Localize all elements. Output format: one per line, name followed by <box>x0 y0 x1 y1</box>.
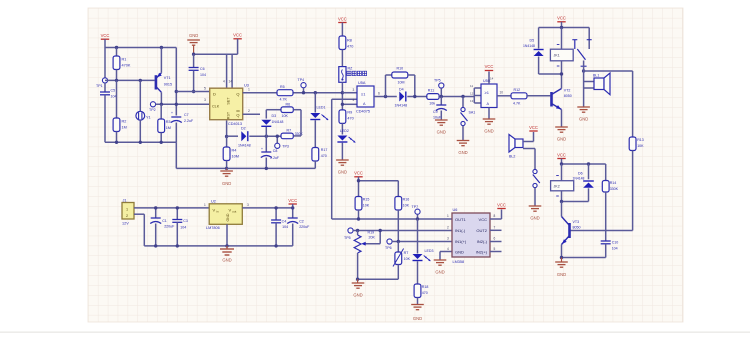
pin number 6 <box>378 92 380 96</box>
power symbol VCC (divider) <box>354 171 363 181</box>
svg-text:C9: C9 <box>433 110 438 114</box>
resistor R1 <box>113 48 131 81</box>
svg-text:1: 1 <box>204 203 206 207</box>
svg-text:14: 14 <box>229 80 233 84</box>
power symbol GND (R18) <box>411 305 424 322</box>
test point TP7 <box>412 205 421 219</box>
or-gate U5B CD4075 <box>470 79 497 108</box>
resistor R11 <box>427 89 475 106</box>
svg-text:BL1: BL1 <box>593 74 599 78</box>
svg-text:10k: 10k <box>429 102 435 106</box>
svg-text:1N4148: 1N4148 <box>238 144 251 148</box>
svg-text:GND: GND <box>189 33 198 38</box>
svg-text:D: D <box>213 91 216 96</box>
svg-text:1N4148: 1N4148 <box>573 177 585 181</box>
node feedback right <box>413 95 416 98</box>
svg-text:LED1: LED1 <box>317 106 326 110</box>
wire U5A output <box>374 96 397 98</box>
power symbol VCC (U5B) <box>485 64 494 84</box>
svg-text:6: 6 <box>494 236 496 240</box>
svg-text:LM358: LM358 <box>453 260 465 264</box>
power symbol VCC (BL2) <box>523 125 538 142</box>
svg-text:CD4013: CD4013 <box>228 122 242 126</box>
wire U2 ground pin <box>225 224 228 247</box>
svg-text:≥1: ≥1 <box>485 90 490 95</box>
wire RST bottom pin <box>226 121 228 137</box>
power symbol VCC (4013) <box>233 33 242 55</box>
svg-text:TP6: TP6 <box>385 246 392 250</box>
wire JK2 rail <box>560 162 606 165</box>
svg-text:BL2: BL2 <box>509 155 515 159</box>
node TP5-C9 <box>440 95 443 98</box>
diode D2 1N4148 <box>227 127 281 148</box>
microphone Y1 <box>136 80 151 142</box>
svg-text:D4: D4 <box>399 88 404 92</box>
capacitor C7 <box>171 111 194 142</box>
wire U6 pin6 stub <box>490 241 502 243</box>
resistor R2 <box>113 80 127 142</box>
wire top rail left <box>105 47 176 49</box>
node C6 bottom on D wire <box>192 90 195 93</box>
wire bottom rail mic stage <box>105 142 227 168</box>
svg-text:JK2: JK2 <box>554 185 560 189</box>
wire VT2 emitter <box>561 110 563 127</box>
svg-text:GND: GND <box>222 181 231 186</box>
svg-text:CD4075: CD4075 <box>356 110 370 114</box>
pin number 1 (U2) <box>204 203 206 207</box>
wire mic node row <box>105 79 155 81</box>
svg-text:10K: 10K <box>403 204 410 208</box>
svg-text:R4: R4 <box>232 149 237 153</box>
svg-text:4: 4 <box>447 247 449 251</box>
svg-text:LED3: LED3 <box>425 249 434 253</box>
test point TP3 <box>275 135 289 149</box>
svg-text:4.7K: 4.7K <box>513 102 521 106</box>
svg-text:TP1: TP1 <box>96 84 103 88</box>
node gate input 1 <box>341 91 344 94</box>
wire supply bottom rail <box>144 245 292 247</box>
svg-text:R14: R14 <box>610 181 617 185</box>
power symbol GND (SA2) <box>529 206 542 221</box>
svg-text:R13: R13 <box>637 138 644 142</box>
pin number 3 <box>204 98 206 102</box>
power symbol GND (U5B) <box>483 108 496 134</box>
wire Q-bar stub <box>243 113 260 115</box>
capacitor C6 <box>189 54 206 91</box>
connector J1 <box>122 199 134 226</box>
svg-text:1M: 1M <box>122 126 127 130</box>
wire collector node <box>539 72 564 75</box>
LED LED1 <box>310 91 328 148</box>
svg-text:VCC: VCC <box>529 125 538 130</box>
svg-text:VCC: VCC <box>479 217 488 222</box>
svg-text:RST: RST <box>227 111 231 119</box>
node TP4 <box>302 91 305 94</box>
svg-text:R1: R1 <box>122 58 127 62</box>
svg-text:C8: C8 <box>273 149 278 153</box>
svg-text:R3: R3 <box>166 120 171 124</box>
svg-text:C3: C3 <box>183 219 188 223</box>
resistor R15 <box>355 197 370 220</box>
svg-text:Q: Q <box>236 113 239 118</box>
node feedback left <box>384 95 387 98</box>
svg-text:5: 5 <box>494 247 496 251</box>
svg-text:VCC: VCC <box>288 198 297 203</box>
resistor R12 <box>511 88 550 106</box>
wire BL1 to R13 <box>584 71 633 137</box>
svg-text:D5: D5 <box>530 39 535 43</box>
power symbol GND (VT3) <box>555 258 568 278</box>
svg-text:C7: C7 <box>184 113 189 117</box>
svg-text:6: 6 <box>378 92 380 96</box>
svg-text:470: 470 <box>422 291 428 295</box>
svg-text:CLK: CLK <box>212 105 220 109</box>
svg-text:≥1: ≥1 <box>361 92 366 97</box>
svg-text:GND: GND <box>338 170 347 175</box>
svg-text:GND: GND <box>435 270 444 275</box>
resistor R3 <box>158 104 171 142</box>
svg-text:VCC: VCC <box>354 171 363 176</box>
svg-text:7: 7 <box>494 225 496 229</box>
svg-text:GND: GND <box>222 258 231 263</box>
svg-text:U6: U6 <box>453 208 458 212</box>
wire VT3 collector <box>561 202 563 217</box>
capacitor C8 <box>261 136 279 168</box>
svg-text:OUT1: OUT1 <box>455 217 466 222</box>
power symbol GND (R4) <box>220 167 233 186</box>
node gate input 3 <box>341 103 344 106</box>
pin number 2 <box>248 109 250 113</box>
capacitor C4 <box>271 206 288 247</box>
svg-text:Q: Q <box>236 91 239 96</box>
wire VT1 emitter to rail <box>160 48 162 73</box>
svg-text:10K: 10K <box>282 114 289 118</box>
svg-text:330K: 330K <box>610 187 619 191</box>
svg-text:out: out <box>232 209 236 213</box>
svg-text:GND: GND <box>458 150 467 155</box>
relay contact JK1 <box>572 28 591 67</box>
power symbol VCC (mic stage) <box>101 33 110 48</box>
wire D-input drop <box>175 48 177 116</box>
wire relay top rail <box>539 27 590 29</box>
or-gate U5A CD4075 <box>353 81 375 114</box>
capacitor C3 <box>172 206 188 247</box>
resistor R17 <box>312 148 327 169</box>
resistor R14 <box>602 164 618 241</box>
test point TP1 <box>96 78 108 92</box>
svg-text:R15: R15 <box>363 198 370 202</box>
svg-text:D3: D3 <box>272 114 277 118</box>
svg-text:3: 3 <box>247 203 249 207</box>
svg-text:2: 2 <box>447 225 449 229</box>
op-amp U3 CD4013 body <box>210 80 249 127</box>
svg-text:8050: 8050 <box>564 94 572 98</box>
svg-text:GND: GND <box>353 293 362 298</box>
wire lower rail 2 <box>227 167 316 169</box>
svg-text:5: 5 <box>204 87 206 91</box>
speaker BL2 <box>509 135 523 159</box>
svg-text:GND: GND <box>579 117 588 122</box>
svg-text:470: 470 <box>347 116 353 120</box>
power symbol GND (C9) <box>435 120 448 135</box>
transistor VT3 8050 <box>562 217 581 245</box>
power symbol GND (LED2) <box>336 160 349 175</box>
power symbol GND (U2) <box>220 246 234 263</box>
wire R6-R7 link <box>300 110 302 136</box>
node rail-VT1 <box>160 46 163 49</box>
svg-text:GND: GND <box>484 129 493 134</box>
svg-text:4: 4 <box>353 98 355 102</box>
test point TP5 (pot) <box>344 228 452 240</box>
svg-text:2: 2 <box>248 109 250 113</box>
svg-text:104: 104 <box>612 247 618 251</box>
LED LED3 <box>413 219 434 284</box>
svg-text:10K: 10K <box>363 204 370 208</box>
svg-text:VT1: VT1 <box>164 76 171 80</box>
resistor R7 <box>281 129 303 139</box>
svg-text:R8: R8 <box>347 39 352 43</box>
svg-text:VCC: VCC <box>233 33 242 38</box>
svg-text:R10: R10 <box>397 67 404 71</box>
node D2-D3-C8 <box>265 135 268 138</box>
svg-text:GND: GND <box>413 316 422 321</box>
node rail junctions <box>115 141 163 144</box>
svg-text:12V: 12V <box>122 222 129 226</box>
svg-text:Y1: Y1 <box>146 116 151 120</box>
wire U5B output <box>497 95 511 97</box>
svg-text:10M: 10M <box>398 81 405 85</box>
svg-text:3: 3 <box>353 88 355 92</box>
svg-text:4.7K: 4.7K <box>280 98 288 102</box>
U6 pin numbers <box>447 214 496 251</box>
svg-text:104: 104 <box>111 95 117 99</box>
switch SA1 <box>461 97 476 141</box>
svg-text:R11: R11 <box>428 89 434 93</box>
wire VT3 emitter <box>560 245 563 260</box>
svg-text:220uF: 220uF <box>299 225 310 229</box>
node R1-R2 <box>115 79 118 82</box>
svg-text:4: 4 <box>223 80 225 84</box>
wire VT2 collector <box>561 74 563 89</box>
svg-text:R6: R6 <box>286 103 291 107</box>
test point TP2 <box>149 102 156 112</box>
pin number 10 <box>500 91 504 95</box>
power symbol VCC (U6) <box>490 203 506 220</box>
pin number 1 <box>248 88 250 92</box>
node D-input <box>175 90 178 93</box>
svg-text:C1: C1 <box>162 219 167 223</box>
test point TP6 <box>385 239 452 250</box>
power symbol GND (top) <box>187 33 200 54</box>
wire contact to speaker <box>582 61 594 107</box>
svg-text:TP5: TP5 <box>344 236 351 240</box>
test point TP5 <box>434 79 444 97</box>
svg-text:TP5: TP5 <box>434 79 441 83</box>
svg-text:IN2(+): IN2(+) <box>476 250 488 255</box>
svg-text:RT: RT <box>404 251 410 255</box>
svg-text:470: 470 <box>347 45 353 49</box>
capacitor C5 <box>100 89 117 143</box>
bottom window edge line <box>0 331 750 333</box>
svg-text:20K: 20K <box>369 236 376 240</box>
svg-text:470K: 470K <box>122 64 131 68</box>
resistor R13 <box>629 137 644 231</box>
svg-text:10M: 10M <box>232 155 239 159</box>
svg-text:TP3: TP3 <box>282 145 289 149</box>
svg-text:IN2(-): IN2(-) <box>477 239 488 244</box>
svg-text:V: V <box>213 207 216 212</box>
svg-text:GND: GND <box>530 216 539 221</box>
pin number 5 <box>204 87 206 91</box>
svg-text:1N4148: 1N4148 <box>523 44 535 48</box>
svg-text:U2: U2 <box>211 200 216 204</box>
power symbol GND (pot) <box>352 279 365 297</box>
svg-text:2.2uF: 2.2uF <box>184 119 194 123</box>
svg-text:11: 11 <box>470 84 473 88</box>
svg-text:R19: R19 <box>368 231 375 235</box>
svg-text:104: 104 <box>282 225 288 229</box>
svg-text:C4: C4 <box>282 220 287 224</box>
wire pot-RT ground link <box>356 278 398 281</box>
svg-text:1N4148: 1N4148 <box>272 120 284 124</box>
resistor R9 <box>339 110 354 135</box>
svg-text:R9: R9 <box>347 110 352 114</box>
relay JK1 coil <box>550 28 573 75</box>
diode D6 1N4148 <box>562 164 594 202</box>
svg-text:LM7806: LM7806 <box>206 226 220 230</box>
svg-text:C6: C6 <box>200 67 205 71</box>
wire U2 output row <box>242 207 292 209</box>
power symbol GND (BL1) <box>577 107 590 122</box>
svg-text:D6: D6 <box>578 172 583 176</box>
wire left column upper <box>104 48 106 78</box>
pin number 3 (U2) <box>247 203 249 207</box>
svg-text:R7: R7 <box>287 129 292 133</box>
diode D5 1N4148 <box>523 28 544 75</box>
svg-text:14: 14 <box>490 77 494 81</box>
resistor R6 <box>266 103 301 119</box>
wire divider rail <box>357 179 399 197</box>
svg-text:U5A: U5A <box>358 81 366 85</box>
wire RZ to gate inputs <box>341 82 343 109</box>
op-amp U6 LM358 body <box>452 208 490 264</box>
svg-text:VCC: VCC <box>101 33 110 38</box>
svg-text:TP4: TP4 <box>298 78 305 82</box>
regulator U2 LM7806 <box>206 200 242 230</box>
svg-text:C2: C2 <box>299 220 304 224</box>
svg-text:1M: 1M <box>166 126 171 130</box>
svg-text:VCC: VCC <box>497 203 506 208</box>
test point TP4 <box>298 78 307 93</box>
power symbol GND (SA1) <box>457 141 470 156</box>
svg-text:OUT2: OUT2 <box>476 228 487 233</box>
svg-text:10: 10 <box>500 91 504 95</box>
svg-text:GND: GND <box>437 130 446 135</box>
svg-text:VCC: VCC <box>557 16 566 21</box>
svg-text:R18: R18 <box>422 285 429 289</box>
LED LED2 <box>337 129 355 160</box>
wire collector node row <box>156 103 211 105</box>
svg-text:10K: 10K <box>404 257 411 261</box>
svg-text:VCC: VCC <box>557 153 566 158</box>
svg-text:V: V <box>229 207 232 212</box>
svg-text:R17: R17 <box>321 148 328 152</box>
svg-text:TP2: TP2 <box>149 108 156 112</box>
node JK2 bottom <box>560 200 563 203</box>
power symbol VCC (relay JK1) <box>557 16 566 28</box>
wire VT1 collector down <box>160 92 162 104</box>
svg-text:R12: R12 <box>514 88 521 92</box>
resistor R18 <box>414 284 428 304</box>
capacitor C2 <box>287 208 310 246</box>
svg-text:220uF: 220uF <box>164 225 175 229</box>
svg-text:C5: C5 <box>111 89 116 93</box>
svg-text:9015: 9015 <box>164 83 172 87</box>
svg-text:8: 8 <box>494 214 496 218</box>
wire J1 pin1 row <box>134 207 209 209</box>
svg-text:1N4148: 1N4148 <box>395 104 408 108</box>
svg-text:8050: 8050 <box>573 225 581 229</box>
power symbol GND (U6 pin4) <box>434 252 452 275</box>
svg-text:C10: C10 <box>612 241 619 245</box>
svg-text:2: 2 <box>126 214 128 218</box>
svg-text:IN1(+): IN1(+) <box>455 239 467 244</box>
wire U6 pin5 stub <box>490 251 502 253</box>
svg-text:D2: D2 <box>241 127 246 131</box>
svg-text:1: 1 <box>447 214 449 218</box>
svg-text:1: 1 <box>126 207 128 211</box>
wire U6 pin7 stub <box>490 229 502 231</box>
wire D input row <box>176 91 210 93</box>
wire gnd-vcc top link <box>194 54 238 89</box>
svg-text:JK1: JK1 <box>554 54 560 58</box>
resistor R4 <box>223 137 239 169</box>
svg-text:VCC: VCC <box>338 17 347 22</box>
svg-text:VT2: VT2 <box>564 89 571 93</box>
svg-text:R5: R5 <box>280 85 285 89</box>
node rail-R1 <box>115 46 118 49</box>
wire comparator feed drop <box>332 99 452 219</box>
node TP6-R16 <box>397 240 400 243</box>
svg-text:1: 1 <box>248 88 250 92</box>
power symbol VCC (supply out) <box>288 198 297 210</box>
svg-text:GND: GND <box>455 250 464 255</box>
resistor R5 <box>277 85 293 102</box>
thermistor RT <box>393 242 411 280</box>
svg-text:104: 104 <box>200 73 206 77</box>
svg-text:VT3: VT3 <box>573 220 580 224</box>
svg-text:GND: GND <box>557 137 566 142</box>
svg-text:LED2: LED2 <box>340 129 349 133</box>
svg-text:GND: GND <box>226 213 230 221</box>
transistor VT2 8050 <box>552 89 572 110</box>
svg-text:10K: 10K <box>637 144 644 148</box>
svg-text:3: 3 <box>447 236 449 240</box>
svg-text:470: 470 <box>321 154 327 158</box>
node SA1 top <box>461 95 464 98</box>
diode D3 1N4148 <box>261 110 283 137</box>
node R15 output <box>357 217 360 220</box>
svg-text:3: 3 <box>204 98 206 102</box>
svg-text:13: 13 <box>470 99 474 103</box>
node TP7 <box>416 217 419 220</box>
resistor R10 <box>386 67 415 97</box>
svg-text:in: in <box>216 209 219 213</box>
capacitor C10 <box>562 241 619 258</box>
svg-text:2.2uF: 2.2uF <box>270 156 279 160</box>
diode D4 1N4148 <box>395 88 427 108</box>
node CLK cross <box>175 103 178 106</box>
